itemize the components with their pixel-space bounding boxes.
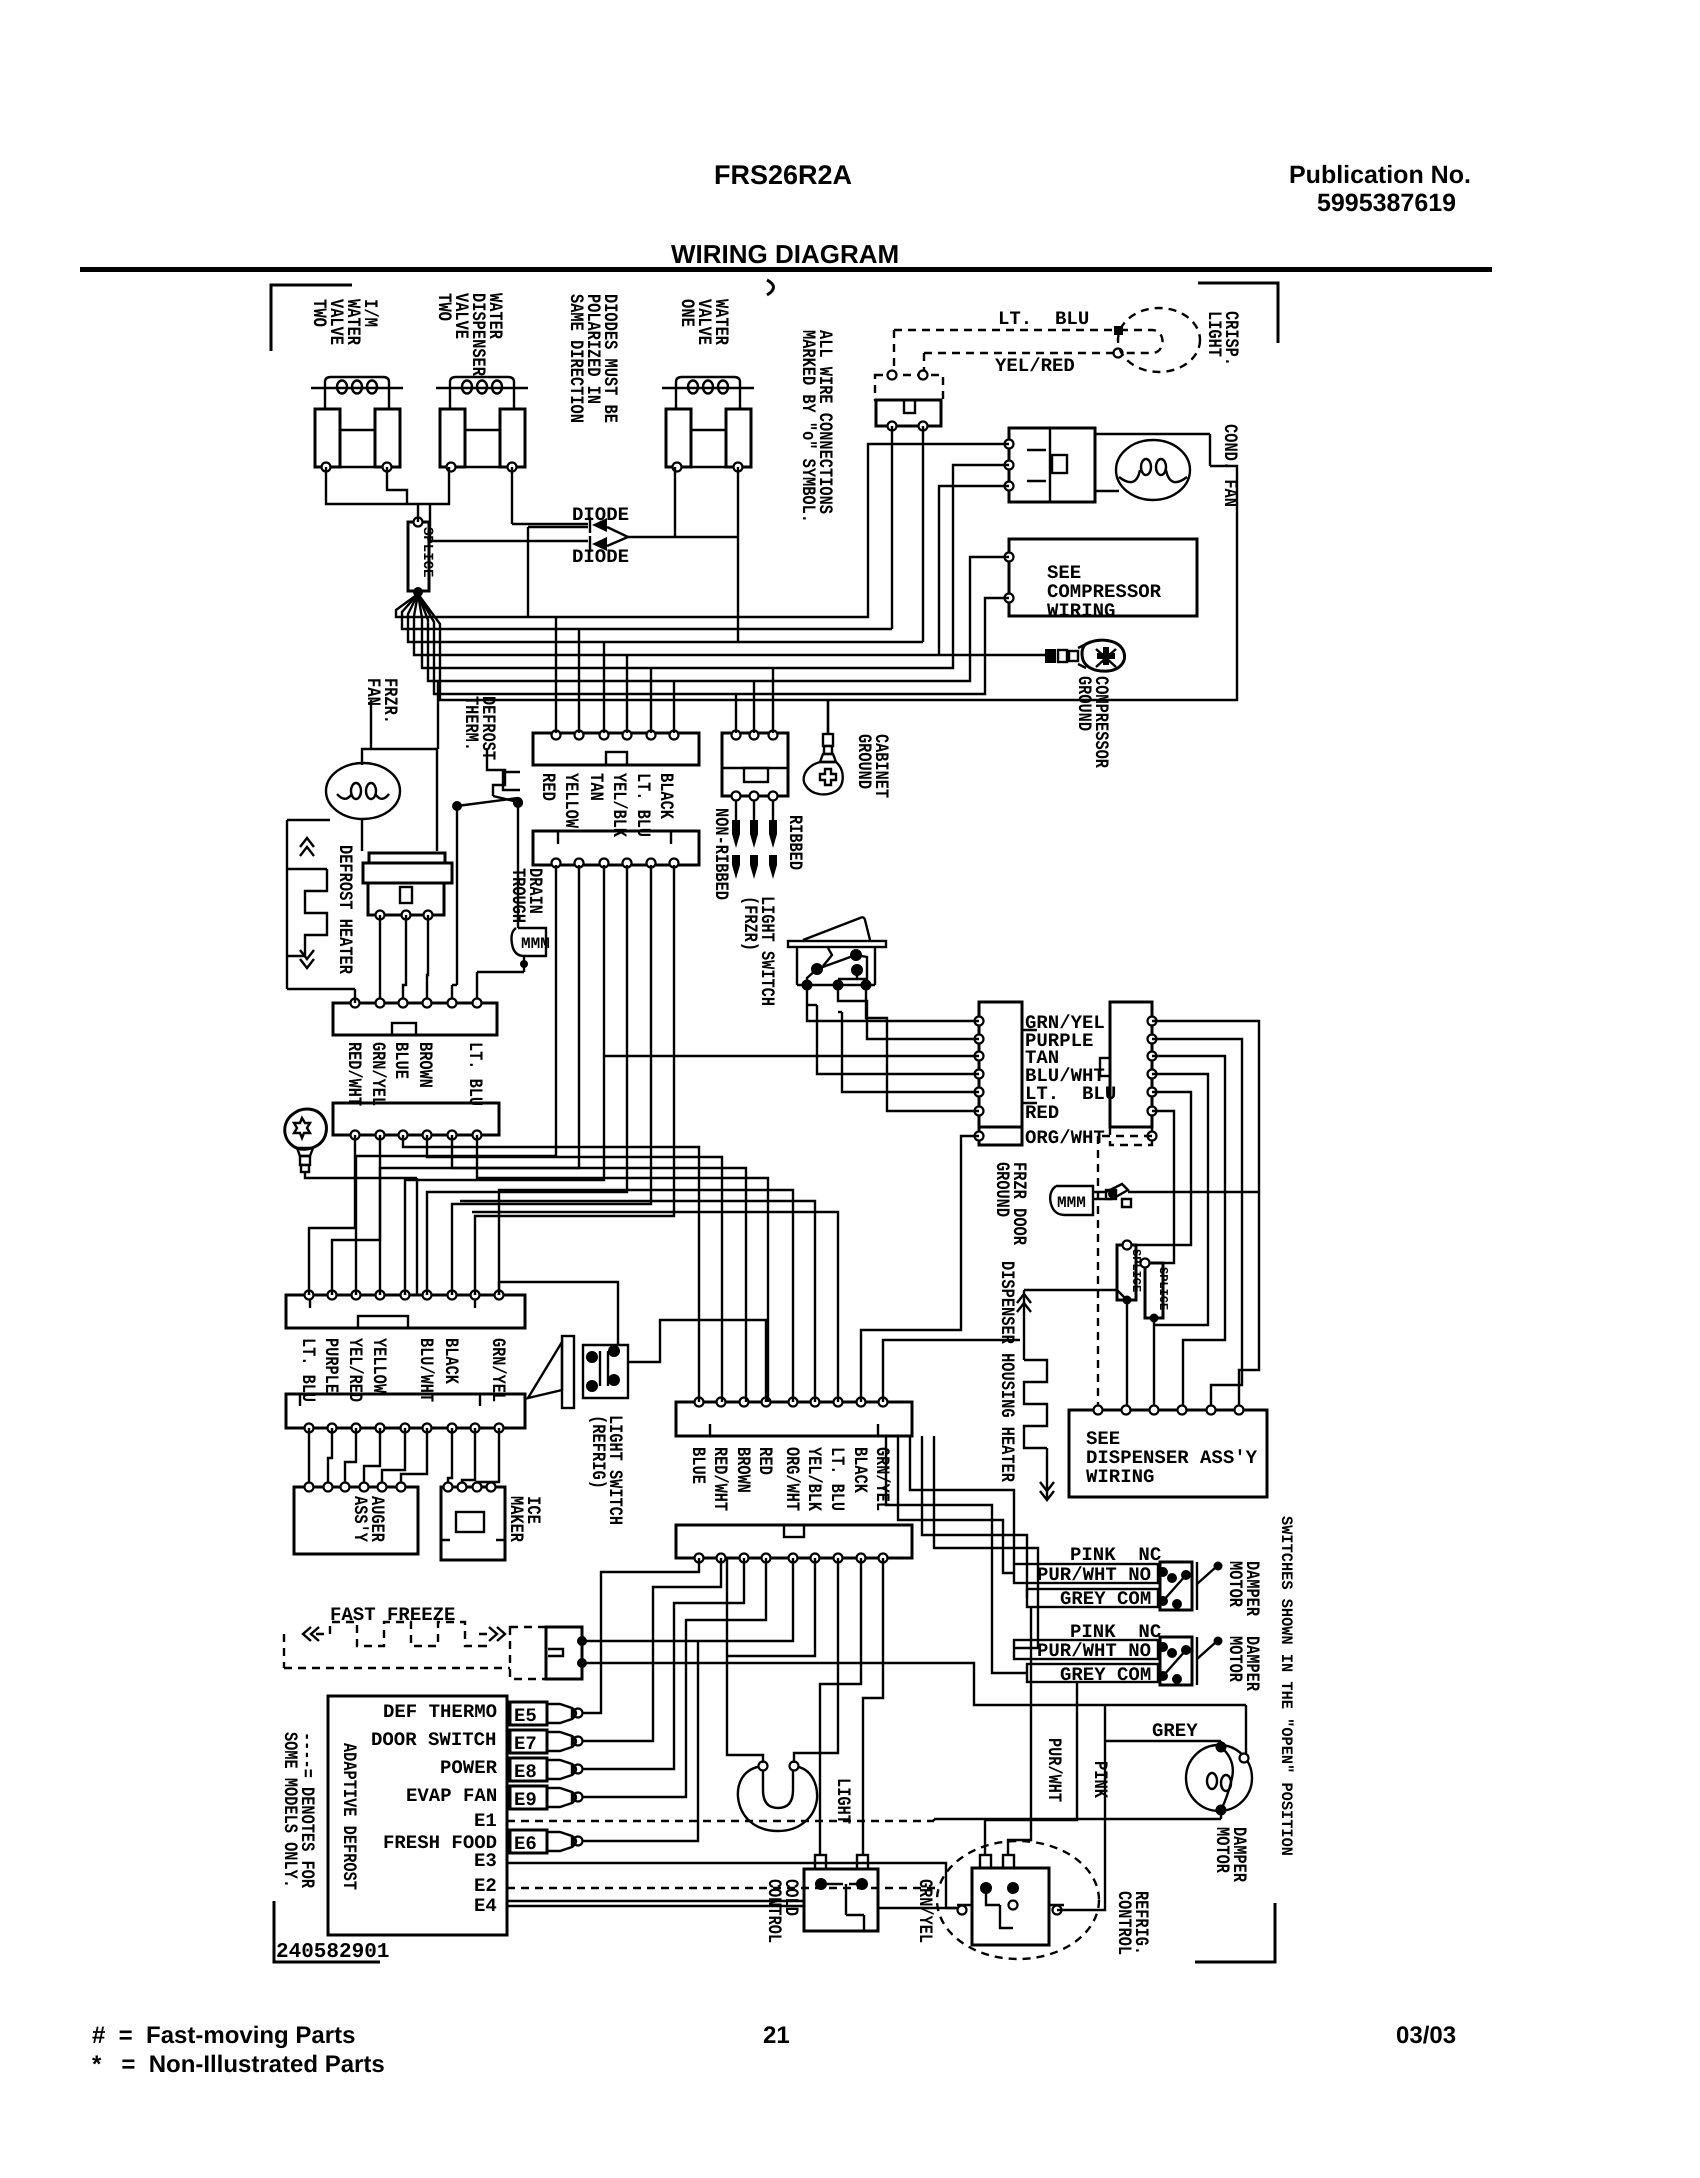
svg-text:GRN/YEL: GRN/YEL — [871, 1447, 893, 1511]
wire ORG/WHT to Q1 — [861, 1136, 979, 1402]
terminal E7 — [510, 1730, 583, 1755]
label LT. BLU (P3) — [297, 1338, 319, 1402]
wire Q2 to light left — [727, 1558, 763, 1763]
svg-text:RED: RED — [754, 1447, 776, 1475]
defrost heater element — [287, 820, 327, 989]
svg-text:E3: E3 — [474, 1850, 497, 1872]
label COLD CONTROL — [763, 1879, 802, 1943]
wires Q2 to E6 — [583, 1641, 698, 1841]
label COMPRESSOR GROUND — [1073, 676, 1112, 768]
wire to Q1 col4 — [628, 1320, 766, 1402]
wire fan to heater — [287, 819, 330, 821]
svg-text:BLACK: BLACK — [655, 773, 677, 819]
node solid square — [1114, 326, 1123, 335]
label DEFROST HEATER — [334, 845, 356, 974]
label BLUE (Q1) — [687, 1447, 709, 1484]
freezer door ground MMM — [1050, 1184, 1131, 1215]
svg-text:YELLOW: YELLOW — [368, 1338, 390, 1393]
defrost thermostat — [487, 748, 505, 796]
svg-text:MAKER: MAKER — [505, 1496, 527, 1542]
label BLACK (J1) — [655, 773, 677, 819]
cabinet ground — [804, 700, 843, 794]
water dispenser valve two — [436, 377, 528, 472]
connector K1 lower tab — [975, 1127, 1023, 1145]
corner bracket bottom-right — [1195, 1903, 1275, 1962]
wires light switch frzr to K1 — [807, 985, 979, 1021]
wire splice S2 down — [1126, 1300, 1127, 1410]
connector K2 dashed tab — [1110, 1127, 1157, 1145]
wire relay to fan top — [1095, 434, 1210, 466]
svg-text:Publication No.: Publication No. — [1289, 161, 1471, 189]
svg-text:E9: E9 — [514, 1789, 537, 1811]
svg-text:RED: RED — [1025, 1102, 1059, 1124]
label PUR/WHT — [1043, 1738, 1065, 1802]
cond fan motor — [1116, 440, 1190, 500]
label DISPENSER HOUSING HEATER — [996, 1261, 1018, 1482]
wires bundle to connector J1 — [556, 617, 674, 733]
label BROWN (P1) — [414, 1042, 436, 1088]
wires from switch down — [892, 426, 923, 642]
wires Q2 to E5 — [583, 1558, 699, 1713]
wire assembly leads — [380, 915, 428, 1003]
svg-text:SWITCHES SHOWN IN THE "OPEN" P: SWITCHES SHOWN IN THE "OPEN" POSITION — [1277, 1516, 1295, 1856]
wire relay row3 — [939, 486, 1009, 655]
label TAN (J1) — [585, 773, 607, 801]
connector K2 right — [1100, 1002, 1157, 1127]
svg-text:THERM.: THERM. — [460, 696, 482, 751]
svg-text:DIODE: DIODE — [572, 546, 629, 568]
svg-text:GREY: GREY — [1152, 1720, 1198, 1742]
svg-text:SPLICE: SPLICE — [1156, 1267, 1170, 1310]
svg-text:BLACK: BLACK — [849, 1447, 871, 1493]
wire motor bottom — [940, 1810, 1221, 1819]
svg-text:EVAP FAN: EVAP FAN — [406, 1785, 497, 1807]
terminal E6 — [510, 1830, 583, 1855]
connector K1 left — [975, 1002, 1038, 1127]
wire refrig right to damper — [1057, 1705, 1105, 1910]
light switch crisper dashed box — [875, 371, 943, 401]
label RIBBED — [784, 815, 806, 870]
wire trough to connector — [477, 972, 510, 1003]
label DAMPER MOTOR 2 — [1224, 1636, 1263, 1691]
svg-text:PINK NC: PINK NC — [1070, 1544, 1161, 1566]
compressor ground lug — [1045, 640, 1125, 671]
svg-text:E4: E4 — [474, 1895, 497, 1917]
svg-text:YEL/BLK: YEL/BLK — [803, 1447, 825, 1511]
svg-text:RED/WHT: RED/WHT — [709, 1447, 731, 1511]
svg-text:FAN: FAN — [362, 678, 384, 706]
svg-text:YEL/BLK: YEL/BLK — [608, 773, 630, 837]
label RED (J1) — [537, 773, 559, 801]
wire valve2b right — [511, 467, 513, 524]
label REFRIG. CONTROL — [1113, 1891, 1152, 1955]
splice fan wire 8 — [418, 466, 1237, 700]
ribbed cord connector — [722, 731, 788, 801]
fast freeze switch box — [510, 1627, 587, 1679]
svg-text:WIRING DIAGRAM: WIRING DIAGRAM — [671, 239, 899, 269]
node open circle — [1114, 349, 1123, 358]
label LIGHT SWITCH (REFRIG) — [587, 1415, 626, 1525]
title rule — [80, 267, 1492, 272]
label YELLOW (P3) — [368, 1338, 390, 1393]
svg-text:(REFRIG): (REFRIG) — [587, 1415, 609, 1489]
label ORG/WHT (Q1) — [781, 1447, 803, 1511]
connector Q2 — [676, 1525, 912, 1563]
label YEL/BLK (J1) — [608, 773, 630, 837]
svg-text:E7: E7 — [514, 1733, 537, 1755]
svg-text:NON-RIBBED: NON-RIBBED — [710, 808, 732, 900]
wire valve one left drop — [674, 536, 676, 538]
label CRISP. LIGHT — [1203, 311, 1242, 366]
svg-text:GREY COM: GREY COM — [1060, 1588, 1151, 1610]
svg-text:GROUND: GROUND — [1073, 676, 1095, 731]
condenser fan relay — [1005, 428, 1096, 502]
svg-text:BLUE: BLUE — [687, 1447, 709, 1484]
label AUGER ASS'Y — [349, 1496, 388, 1542]
wire heater bottom left — [287, 989, 355, 1003]
svg-text:DEFROST HEATER: DEFROST HEATER — [334, 845, 356, 974]
adaptive defrost board — [328, 1696, 507, 1935]
water valve I/M two — [311, 377, 403, 472]
evaporator ground — [285, 1109, 417, 1295]
svg-text:ASS'Y: ASS'Y — [349, 1496, 371, 1542]
svg-text:E1: E1 — [474, 1810, 497, 1832]
refrigerator light — [738, 1762, 817, 1832]
svg-text:03/03: 03/03 — [1396, 2022, 1456, 2049]
label BLACK (P3) — [440, 1338, 462, 1384]
svg-text:LT. BLU: LT. BLU — [632, 773, 654, 837]
label DENOTES FOR SOME MODELS ONLY — [279, 1732, 318, 1888]
note diodes polarized — [565, 294, 621, 423]
drain trough tap bracket — [503, 772, 523, 928]
damper motor — [1186, 1742, 1252, 1816]
svg-text:RED/WHT: RED/WHT — [343, 1042, 365, 1106]
svg-text:ADAPTIVE DEFROST: ADAPTIVE DEFROST — [338, 1743, 360, 1890]
diode D1 — [512, 517, 628, 537]
wires Q2 to E7 — [583, 1558, 721, 1741]
wire ORG/WHT dashed — [1098, 1136, 1152, 1410]
svg-text:LT. BLU: LT. BLU — [464, 1042, 486, 1106]
connector J1 — [533, 731, 699, 766]
svg-text:YELLOW: YELLOW — [560, 773, 582, 828]
svg-text:BLACK: BLACK — [440, 1338, 462, 1384]
label BROWN (Q1) — [732, 1447, 754, 1493]
TOPRIGHT — [875, 308, 1242, 768]
svg-text:MOTOR: MOTOR — [1224, 1636, 1246, 1682]
terminal E5 — [510, 1702, 583, 1727]
label DEFROST THERM. — [460, 696, 499, 760]
damper switch row 2 — [1014, 1621, 1223, 1686]
label BLU/WHT (P3) — [415, 1338, 437, 1402]
wires bundle to connector K1 — [605, 1055, 979, 1057]
defrost heater assembly — [363, 853, 452, 920]
svg-text:E6: E6 — [514, 1833, 537, 1855]
wire heater to splice — [1024, 1290, 1127, 1300]
splice S1 — [408, 518, 435, 598]
freezer fan motor — [326, 763, 400, 819]
wire diode output to valve one — [628, 467, 738, 642]
wire loops K2 to dispenser — [1152, 1021, 1259, 1410]
svg-text:MOTOR: MOTOR — [1224, 1561, 1246, 1607]
diode D2 — [430, 536, 628, 552]
label WATER DISPENSER VALVE TWO — [433, 293, 506, 376]
wires P4 to auger and ice maker — [308, 1428, 310, 1487]
svg-text:PUR/WHT NO: PUR/WHT NO — [1037, 1564, 1151, 1586]
wire therm to connector — [452, 806, 457, 1003]
svg-text:LT. BLU: LT. BLU — [826, 1447, 848, 1511]
label BLUE (P1) — [390, 1042, 412, 1079]
wire door ground to loop — [1128, 1191, 1259, 1193]
wire valve1 to splice — [326, 467, 418, 522]
svg-text:BROWN: BROWN — [732, 1447, 754, 1493]
svg-text:GRN/YEL: GRN/YEL — [367, 1042, 389, 1106]
light switch crisper body — [876, 400, 941, 431]
svg-text:YEL/RED: YEL/RED — [995, 355, 1075, 377]
svg-text:LIGHT: LIGHT — [1203, 311, 1225, 357]
corner bracket top-left — [271, 285, 352, 351]
water valve one — [662, 377, 754, 472]
svg-text:MARKED BY "o" SYMBOL.: MARKED BY "o" SYMBOL. — [797, 330, 819, 523]
svg-text:DEF THERMO: DEF THERMO — [383, 1701, 497, 1723]
svg-text:SPLICE: SPLICE — [419, 527, 435, 577]
wires P2 to Q1 long — [403, 1135, 699, 1402]
label GRN/YEL (P3) — [487, 1338, 509, 1402]
wire fan mount risers — [371, 681, 438, 749]
wire cold to refrig — [878, 1907, 957, 1909]
wire E2 dashed — [507, 1887, 938, 1889]
splice fan wire 5 — [418, 465, 1009, 668]
wire pur/wht vertical — [1008, 1607, 1031, 1855]
label LT. BLU (P1) — [464, 1042, 486, 1106]
connector P1 — [333, 999, 497, 1036]
damper switch row 1 — [1014, 1544, 1223, 1610]
freezer fan mount box — [362, 749, 437, 851]
label I/M WATER VALVE TWO — [308, 299, 381, 345]
svg-text:BLU/WHT: BLU/WHT — [415, 1338, 437, 1402]
wires bundle to ribbed connector — [736, 668, 773, 733]
svg-text:PINK: PINK — [1089, 1761, 1111, 1798]
note all wire connections — [797, 330, 836, 523]
svg-text:MMM: MMM — [1057, 1194, 1086, 1212]
label LIGHT SWITCH (FRZR) — [739, 896, 778, 1006]
label LT. BLU (Q1) — [826, 1447, 848, 1511]
crisper light — [1118, 308, 1200, 372]
fast freeze heater dashed — [284, 1622, 510, 1668]
connector P3 — [286, 1291, 525, 1329]
defrost therm switch — [452, 796, 523, 811]
wire E1 to damper motor return — [507, 1820, 934, 1822]
compressor wiring box — [1005, 539, 1198, 622]
auger assembly — [294, 1483, 418, 1555]
wire LT. BLU dashed — [894, 330, 1118, 375]
drain trough heater MMM — [510, 928, 550, 972]
label COND. FAN — [1219, 424, 1241, 507]
svg-text:ONE: ONE — [676, 299, 698, 327]
wire cabinet ground riser — [827, 700, 829, 734]
svg-text:* = Non-Illustrated Parts: * = Non-Illustrated Parts — [92, 2051, 385, 2078]
svg-text:DISPENSER HOUSING HEATER: DISPENSER HOUSING HEATER — [996, 1261, 1018, 1482]
label RED (Q1) — [754, 1447, 776, 1475]
svg-text:SOME MODELS ONLY.: SOME MODELS ONLY. — [279, 1732, 301, 1888]
svg-text:WIRING: WIRING — [1086, 1466, 1154, 1488]
svg-text:5995387619: 5995387619 — [1317, 189, 1456, 217]
corner bracket bottom-left — [274, 1901, 380, 1962]
label YELLOW (J1) — [560, 773, 582, 828]
wire Q2 to cold control left — [820, 1558, 861, 1855]
svg-text:WIRING: WIRING — [1047, 600, 1115, 622]
wires Q2 to E8 — [583, 1558, 744, 1769]
wire YEL/RED dashed — [924, 353, 1113, 375]
HEADER — [80, 160, 1492, 2078]
splice fan wire 7 — [418, 594, 1009, 694]
wire E3 to refrig control — [507, 1863, 957, 1908]
label PURPLE (P3) — [320, 1338, 342, 1393]
svg-text:MMM: MMM — [521, 935, 550, 953]
label DAMPER MOTOR 1 — [1224, 1561, 1263, 1616]
wire splice S3 down — [1153, 1318, 1155, 1410]
svg-text:SPLICE: SPLICE — [1129, 1249, 1143, 1292]
wire pink vertical — [985, 1682, 1077, 1855]
wire switch frzr to P3 — [499, 1282, 618, 1345]
svg-text:FRS26R2A: FRS26R2A — [714, 160, 852, 190]
splice fan wire 1 — [396, 444, 1009, 617]
label YEL/RED (P3) — [344, 1338, 366, 1402]
label ICE MAKER — [505, 1496, 544, 1542]
splice fan wire 2 — [402, 594, 892, 629]
svg-text:# = Fast-moving Parts: # = Fast-moving Parts — [92, 2022, 355, 2049]
svg-text:SAME DIRECTION: SAME DIRECTION — [565, 294, 587, 423]
svg-text:LT. BLU: LT. BLU — [998, 308, 1089, 330]
svg-text:RED: RED — [537, 773, 559, 801]
label PINK — [1089, 1761, 1111, 1798]
svg-text:ORG/WHT: ORG/WHT — [781, 1447, 803, 1511]
splice fan wire 6 — [418, 557, 1009, 681]
wire to Q1 col9 — [883, 1340, 1020, 1402]
wire E4 — [507, 1901, 804, 1906]
label NON-RIBBED — [710, 808, 732, 900]
paren mark top center — [767, 280, 774, 295]
wire diode inputs — [430, 504, 588, 617]
terminal E8 — [510, 1758, 583, 1783]
svg-text:E8: E8 — [514, 1761, 537, 1783]
splice fan wire 4 — [414, 594, 1045, 655]
svg-text:E5: E5 — [514, 1705, 537, 1727]
svg-text:TWO: TWO — [433, 293, 455, 321]
BOTTOM — [279, 1516, 1295, 1959]
svg-text:TWO: TWO — [308, 299, 330, 327]
label CABINET GROUND — [853, 734, 892, 798]
svg-text:RIBBED: RIBBED — [784, 815, 806, 870]
refrig control — [937, 1841, 1099, 1959]
svg-text:GROUND: GROUND — [991, 1162, 1013, 1217]
label YEL/BLK (Q1) — [803, 1447, 825, 1511]
wires P2 to P3 — [309, 1135, 355, 1295]
label ADAPTIVE DEFROST — [338, 1743, 360, 1890]
ice maker — [441, 1483, 505, 1561]
label FRZA DOOR GROUND — [991, 1162, 1030, 1245]
wire valve2 to splice — [418, 467, 449, 504]
label GRN/YEL (Q1) — [871, 1447, 893, 1511]
wire grey to motor — [1105, 1741, 1221, 1747]
wires Q2 to E9 — [583, 1558, 766, 1797]
svg-text:LT. BLU: LT. BLU — [297, 1338, 319, 1402]
LOWLEFT — [286, 1291, 912, 1563]
wires to damper switch feeds — [886, 1436, 1027, 1673]
svg-text:DOOR SWITCH: DOOR SWITCH — [371, 1729, 496, 1751]
terminal E9 — [510, 1786, 583, 1811]
wire relay to fan bottom — [1095, 490, 1119, 492]
svg-text:240582901: 240582901 — [276, 1941, 389, 1964]
label DRAIN TROUGH — [507, 868, 546, 923]
svg-text:MOTOR: MOTOR — [1211, 1827, 1233, 1873]
corner bracket top-right — [1198, 283, 1278, 343]
svg-text:GRN/YEL: GRN/YEL — [487, 1338, 509, 1402]
label LT. BLU (J1) — [632, 773, 654, 837]
label WATER VALVE ONE — [676, 299, 732, 345]
svg-text:21: 21 — [763, 2022, 790, 2049]
wire fast freeze to Q2 — [582, 1558, 793, 1641]
wire valve1b to splice — [387, 467, 407, 504]
wire to motor right — [1103, 1705, 1246, 1758]
svg-text:ORG/WHT: ORG/WHT — [1025, 1127, 1105, 1149]
label RED/WHT (P1) — [343, 1042, 365, 1106]
light switch refrig — [528, 1336, 628, 1408]
label RED/WHT (Q1) — [709, 1447, 731, 1511]
connector Q1 — [676, 1398, 912, 1437]
cold control — [804, 1855, 878, 1931]
MIDRIGHT — [975, 1002, 1268, 1500]
power cord pins — [732, 800, 777, 879]
wires J2 to P3 staircase — [356, 865, 556, 1295]
svg-text:PUR/WHT NO: PUR/WHT NO — [1037, 1640, 1151, 1662]
svg-text:YEL/RED: YEL/RED — [344, 1338, 366, 1402]
svg-text:BROWN: BROWN — [414, 1042, 436, 1088]
label SWITCHES SHOWN — [1277, 1516, 1295, 1856]
dispenser housing heater element — [1017, 1290, 1054, 1500]
splice S2 — [1117, 1241, 1143, 1305]
label DAMPER MOTOR 3 — [1211, 1827, 1250, 1882]
label BLACK (Q1) — [849, 1447, 871, 1493]
svg-text:GROUND: GROUND — [853, 734, 875, 789]
wire Q2 to cold control right — [863, 1558, 883, 1855]
connector P4 — [286, 1394, 525, 1433]
svg-text:LIGHT: LIGHT — [832, 1778, 854, 1824]
splice fan wire 3 — [408, 594, 923, 642]
svg-text:TAN: TAN — [585, 773, 607, 801]
svg-text:(FRZR): (FRZR) — [739, 896, 761, 951]
label GRN/YEL (P1) — [367, 1042, 389, 1106]
svg-text:POWER: POWER — [440, 1757, 498, 1779]
label GRN/YEL bottom — [914, 1879, 936, 1943]
svg-text:PUR/WHT: PUR/WHT — [1043, 1738, 1065, 1802]
svg-text:PURPLE: PURPLE — [320, 1338, 342, 1393]
svg-text:E2: E2 — [474, 1875, 497, 1897]
splice S3 — [1141, 1259, 1171, 1323]
dispenser assy wiring box — [1069, 1406, 1267, 1498]
label LIGHT — [832, 1778, 854, 1824]
svg-text:GREY COM: GREY COM — [1060, 1664, 1151, 1686]
wire Q2 to light right — [794, 1558, 838, 1763]
svg-text:CONTROL: CONTROL — [1113, 1891, 1135, 1955]
connector J2 — [533, 831, 699, 868]
MIDLEFT — [285, 678, 892, 1295]
label FRZR. FAN — [362, 678, 401, 724]
svg-text:BLUE: BLUE — [390, 1042, 412, 1079]
connector P2 — [333, 1103, 499, 1140]
light switch freezer — [788, 917, 886, 990]
wire fast freeze lower — [582, 1663, 1103, 1705]
wire Q2 spare — [728, 1558, 815, 1656]
